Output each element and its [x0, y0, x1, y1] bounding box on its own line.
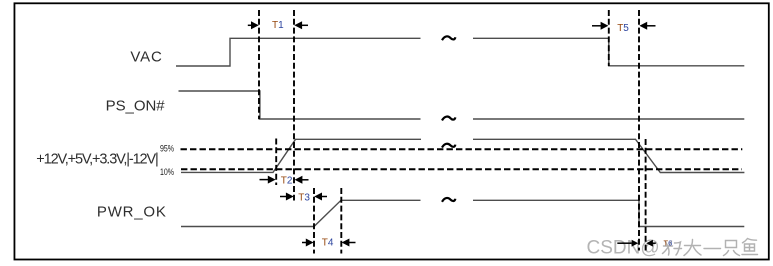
svg-text:PS_ON#: PS_ON# — [106, 97, 166, 114]
T6 right arrow — [646, 240, 656, 247]
svg-text:PWR_OK: PWR_OK — [97, 204, 166, 221]
T4 right arrow — [342, 239, 356, 247]
95% dashed level line — [181, 148, 743, 150]
10% dashed level line — [181, 168, 742, 170]
T5 left arrow — [592, 22, 608, 30]
hao 好 — [663, 241, 682, 255]
T6 left arrow — [617, 240, 638, 247]
wire PWR_OK waveform right: high, falling edge, low — [473, 200, 744, 226]
T4 left arrow — [302, 239, 314, 247]
dashed vertical line T6 right — [645, 139, 647, 251]
dashed vertical line at VAC fall (T5 left) — [608, 10, 610, 66]
break symbol (tilde) on +12V rails — [442, 144, 455, 148]
svg-text:T3: T3 — [298, 192, 310, 203]
svg-text:T2: T2 — [281, 175, 293, 186]
yi 一 — [704, 248, 721, 250]
T2 right arrow — [295, 176, 309, 184]
T5 right arrow — [639, 22, 655, 30]
T1 left arrow — [248, 21, 259, 29]
T3 left arrow — [280, 193, 294, 201]
svg-text:T5: T5 — [617, 23, 629, 34]
zhi 只 — [724, 241, 740, 256]
watermark hanzi (hand-drawn strokes, light gray) — [663, 239, 758, 256]
svg-text:VAC: VAC — [130, 48, 162, 65]
dashed vertical line at supplies ramp start (T2 left) — [275, 139, 277, 186]
svg-text:CSDN@: CSDN@ — [587, 238, 660, 259]
T1 right arrow — [294, 21, 308, 29]
dashed vertical line at PWR_OK high (T4 right) — [340, 188, 342, 254]
svg-text:10%: 10% — [160, 167, 174, 178]
break symbol (tilde) on PS_ON# — [442, 117, 455, 121]
break symbol (tilde) on PWR_OK — [442, 198, 455, 202]
wire +12V rails waveform left: 10% low, ramp up, plateau — [181, 139, 421, 172]
dashed vertical line T1 right / supplies in-spec — [293, 10, 295, 201]
wire VAC waveform right: high, falling edge at T5, low to right — [473, 38, 744, 66]
wire +12V rails waveform right: plateau, ramp down, low — [473, 139, 744, 172]
wire VAC waveform left: low, rising edge, high plateau — [176, 38, 421, 66]
T3 right arrow — [314, 193, 327, 201]
svg-text:95%: 95% — [160, 143, 174, 154]
dashed vertical line at PS_ON# fall (T1 left) — [258, 10, 260, 119]
svg-text:T4: T4 — [322, 238, 334, 249]
svg-text:T1: T1 — [272, 20, 284, 31]
wire PWR_OK waveform left: low, ramp up at T4, high plateau — [181, 200, 421, 226]
T2 left arrow — [260, 176, 276, 184]
svg-text:T6: T6 — [664, 238, 673, 247]
yu 鱼 — [742, 239, 758, 255]
svg-text:+12V,+5V,+3.3V,|-12V|: +12V,+5V,+3.3V,|-12V| — [36, 152, 159, 168]
dashed vertical line at PWR_OK fall (T5 right / T6 left) — [638, 10, 640, 251]
dashed vertical line at PWR_OK ramp start (T3 right / T4 left) — [313, 188, 315, 254]
wire PS_ON# waveform right: low — [473, 118, 744, 120]
da 大 — [684, 240, 701, 256]
break symbol (tilde) on VAC — [442, 36, 455, 40]
wire PS_ON# waveform left: high, falling edge, low — [179, 91, 421, 119]
